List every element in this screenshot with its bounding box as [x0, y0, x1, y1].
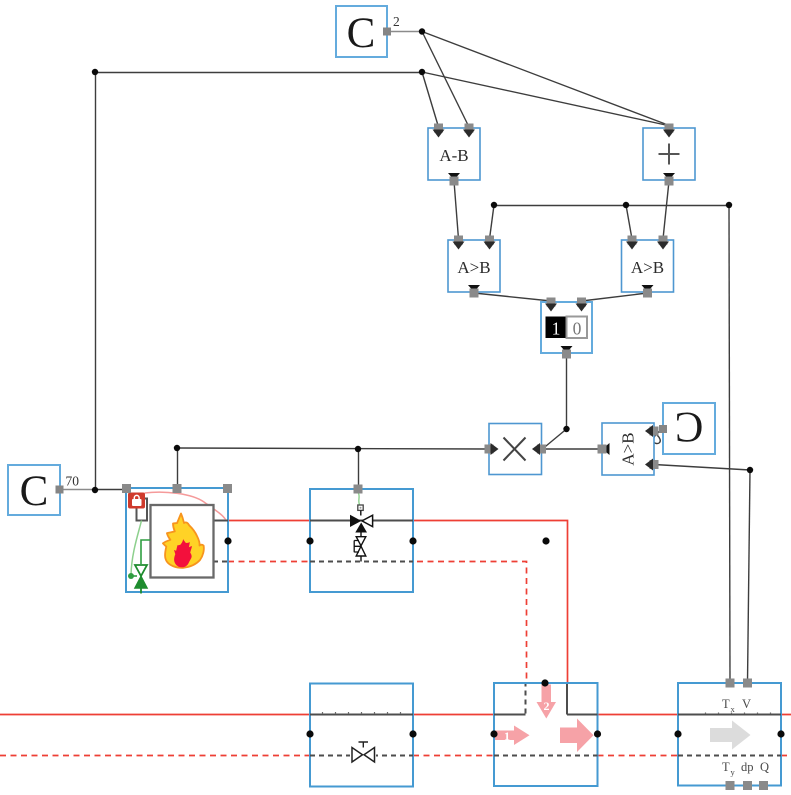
wire junction to A-B input A	[422, 72, 439, 127]
wire stub to valve port	[358, 449, 360, 489]
valve pipe supply dark	[310, 520, 413, 522]
port valve control	[354, 485, 363, 494]
port C70 out	[56, 486, 64, 494]
pipe bottom return red dashed	[0, 755, 791, 757]
svg-text:Q: Q	[760, 760, 769, 774]
wire sensor Tx to A>B rotated input	[654, 465, 750, 471]
node valve left	[306, 537, 313, 544]
wire junction to A-B input B	[422, 32, 469, 128]
port boiler status	[223, 484, 232, 493]
svg-text:0: 0	[573, 319, 582, 339]
multiplier X	[485, 424, 547, 475]
valve three way	[350, 515, 373, 533]
switch 1 0	[541, 298, 592, 359]
comparator A>B right	[622, 236, 674, 298]
node C70 tee	[92, 487, 98, 493]
wire junction to plus input second	[422, 72, 668, 126]
port sensor dp	[743, 781, 752, 790]
node bus left	[491, 202, 497, 208]
svg-text:2: 2	[393, 14, 400, 29]
port adder input	[665, 124, 674, 133]
svg-text:dp: dp	[741, 760, 754, 774]
svg-text:C: C	[675, 403, 704, 450]
node Tx bend	[747, 467, 753, 473]
wire to multiplier right port	[543, 429, 567, 449]
wire stub to boiler port	[177, 448, 179, 488]
node tee right	[594, 730, 601, 737]
wire boiler control line	[177, 448, 488, 449]
pipe bottom supply red	[0, 714, 791, 716]
port A-B input A	[434, 124, 443, 133]
wire bus to A>B right input A	[626, 205, 632, 239]
svg-text:A>B: A>B	[619, 432, 638, 465]
node bus mid	[623, 202, 629, 208]
constant C2	[336, 6, 400, 57]
sensor pipe ticks	[706, 713, 771, 715]
node switch out bend	[563, 426, 569, 432]
mixing valve block V1	[310, 485, 413, 593]
tee return dashed	[494, 755, 598, 757]
radiator ticks	[323, 712, 401, 714]
wire vertical sensor right	[748, 470, 751, 682]
port A-B output	[448, 173, 460, 180]
tee pipe right riser	[566, 684, 568, 715]
radiator valve block V2	[310, 684, 413, 787]
boiler flame	[163, 514, 204, 568]
boiler pipe stub supply	[213, 520, 228, 522]
port sensor T out	[726, 679, 735, 688]
radiator pipe dark	[310, 714, 413, 716]
node valve right	[409, 537, 416, 544]
boiler control curve pink	[145, 492, 226, 519]
sensor return dashed	[678, 755, 781, 757]
wire C70 out stub	[60, 489, 95, 491]
pipe supply red top row	[228, 521, 568, 684]
port C2 out	[383, 28, 391, 36]
wire A>B left out to switch input A	[474, 293, 551, 301]
boiler B1	[122, 484, 232, 594]
node boiler control	[174, 445, 180, 451]
boiler gas valve	[131, 565, 147, 594]
wire to boiler port	[95, 489, 126, 491]
svg-text:A>B: A>B	[631, 258, 664, 277]
shutoff valve symbol	[350, 742, 376, 762]
node tee left	[490, 730, 497, 737]
tee pipe left dark	[494, 714, 526, 716]
port boiler setpoint	[122, 484, 131, 493]
svg-text:A-B: A-B	[439, 146, 468, 165]
wire plus out to A>B right input B	[663, 181, 669, 239]
adder plus	[643, 124, 695, 186]
wire bus to A>B left input B	[490, 205, 495, 239]
tee arrow out right	[560, 719, 594, 753]
node bus right	[726, 202, 732, 208]
node sensor left	[674, 730, 681, 737]
node valve control	[355, 446, 361, 452]
svg-text:A>B: A>B	[457, 258, 490, 277]
svg-text:C: C	[347, 10, 376, 57]
svg-text:2: 2	[544, 699, 550, 713]
boiler green elbow	[141, 540, 151, 564]
tee pipe right dark	[567, 714, 598, 716]
svg-text:1: 1	[552, 319, 561, 339]
svg-text:1: 1	[504, 729, 510, 743]
port sensor Q	[759, 781, 768, 790]
wire sensor bus horizontal	[494, 205, 729, 207]
svg-text:T: T	[722, 697, 730, 711]
port C rotated out	[659, 425, 667, 433]
subtractor A-B	[428, 124, 480, 186]
boiler green pilot curve	[131, 521, 142, 576]
comparator A>B rotated	[598, 423, 659, 475]
wire vertical sensor left	[729, 205, 730, 682]
tee arrow 2 down	[537, 685, 557, 719]
constant C70	[8, 465, 79, 515]
node radiator left	[306, 730, 313, 737]
valve green squiggle	[358, 493, 359, 505]
wire setpoint vertical	[95, 73, 97, 491]
node radiator right	[409, 730, 416, 737]
svg-text:V: V	[742, 697, 751, 711]
boiler chamber	[151, 505, 214, 578]
svg-text:70: 70	[66, 474, 80, 489]
node pipe mid	[542, 537, 549, 544]
constant C rotated	[659, 403, 715, 454]
port adder output	[663, 173, 675, 180]
valve stem	[360, 510, 362, 561]
node setpoint split	[419, 69, 425, 75]
tee pipe left riser dashed	[525, 684, 527, 714]
sensor block S1	[678, 679, 781, 791]
port sensor V out	[743, 679, 752, 688]
tee arrow 1 right	[495, 726, 530, 746]
valve relief symbol	[354, 537, 366, 556]
wire hook C rotated to A>B rotated	[651, 430, 662, 444]
comparator A>B left	[448, 236, 500, 298]
node C2 split	[419, 28, 425, 34]
sensor pipe dark	[678, 714, 781, 716]
node boiler out	[224, 537, 231, 544]
wire A-B out to A>B left input A	[454, 181, 459, 239]
boiler pipe stub return dashed	[213, 561, 230, 563]
wire switch out down	[566, 354, 568, 429]
wire A>B rotated out to multiplier	[543, 448, 600, 450]
wire C2 out to junction	[387, 31, 422, 33]
wire junction to plus input	[422, 32, 668, 126]
tee junction block T1	[494, 683, 598, 786]
boiler controller box	[137, 499, 148, 521]
node setpoint corner	[92, 69, 98, 75]
valve pipe return dark dashed	[310, 561, 413, 563]
radiator return dashed	[310, 755, 413, 757]
port boiler control	[173, 484, 182, 493]
port sensor Ty	[726, 781, 735, 790]
wire A>B right out to switch input B	[582, 293, 648, 301]
port A-B input B	[465, 124, 474, 133]
node sensor right	[777, 730, 784, 737]
boiler lock icon	[128, 493, 145, 509]
pipe return red dashed top row	[228, 562, 527, 684]
svg-text:T: T	[722, 760, 730, 774]
svg-text:C: C	[20, 468, 49, 515]
sensor flow arrow	[710, 721, 751, 750]
boiler green dot	[128, 573, 134, 579]
node tee top	[541, 679, 548, 686]
valve actuator square	[358, 505, 363, 510]
wire setpoint horizontal	[95, 72, 422, 74]
